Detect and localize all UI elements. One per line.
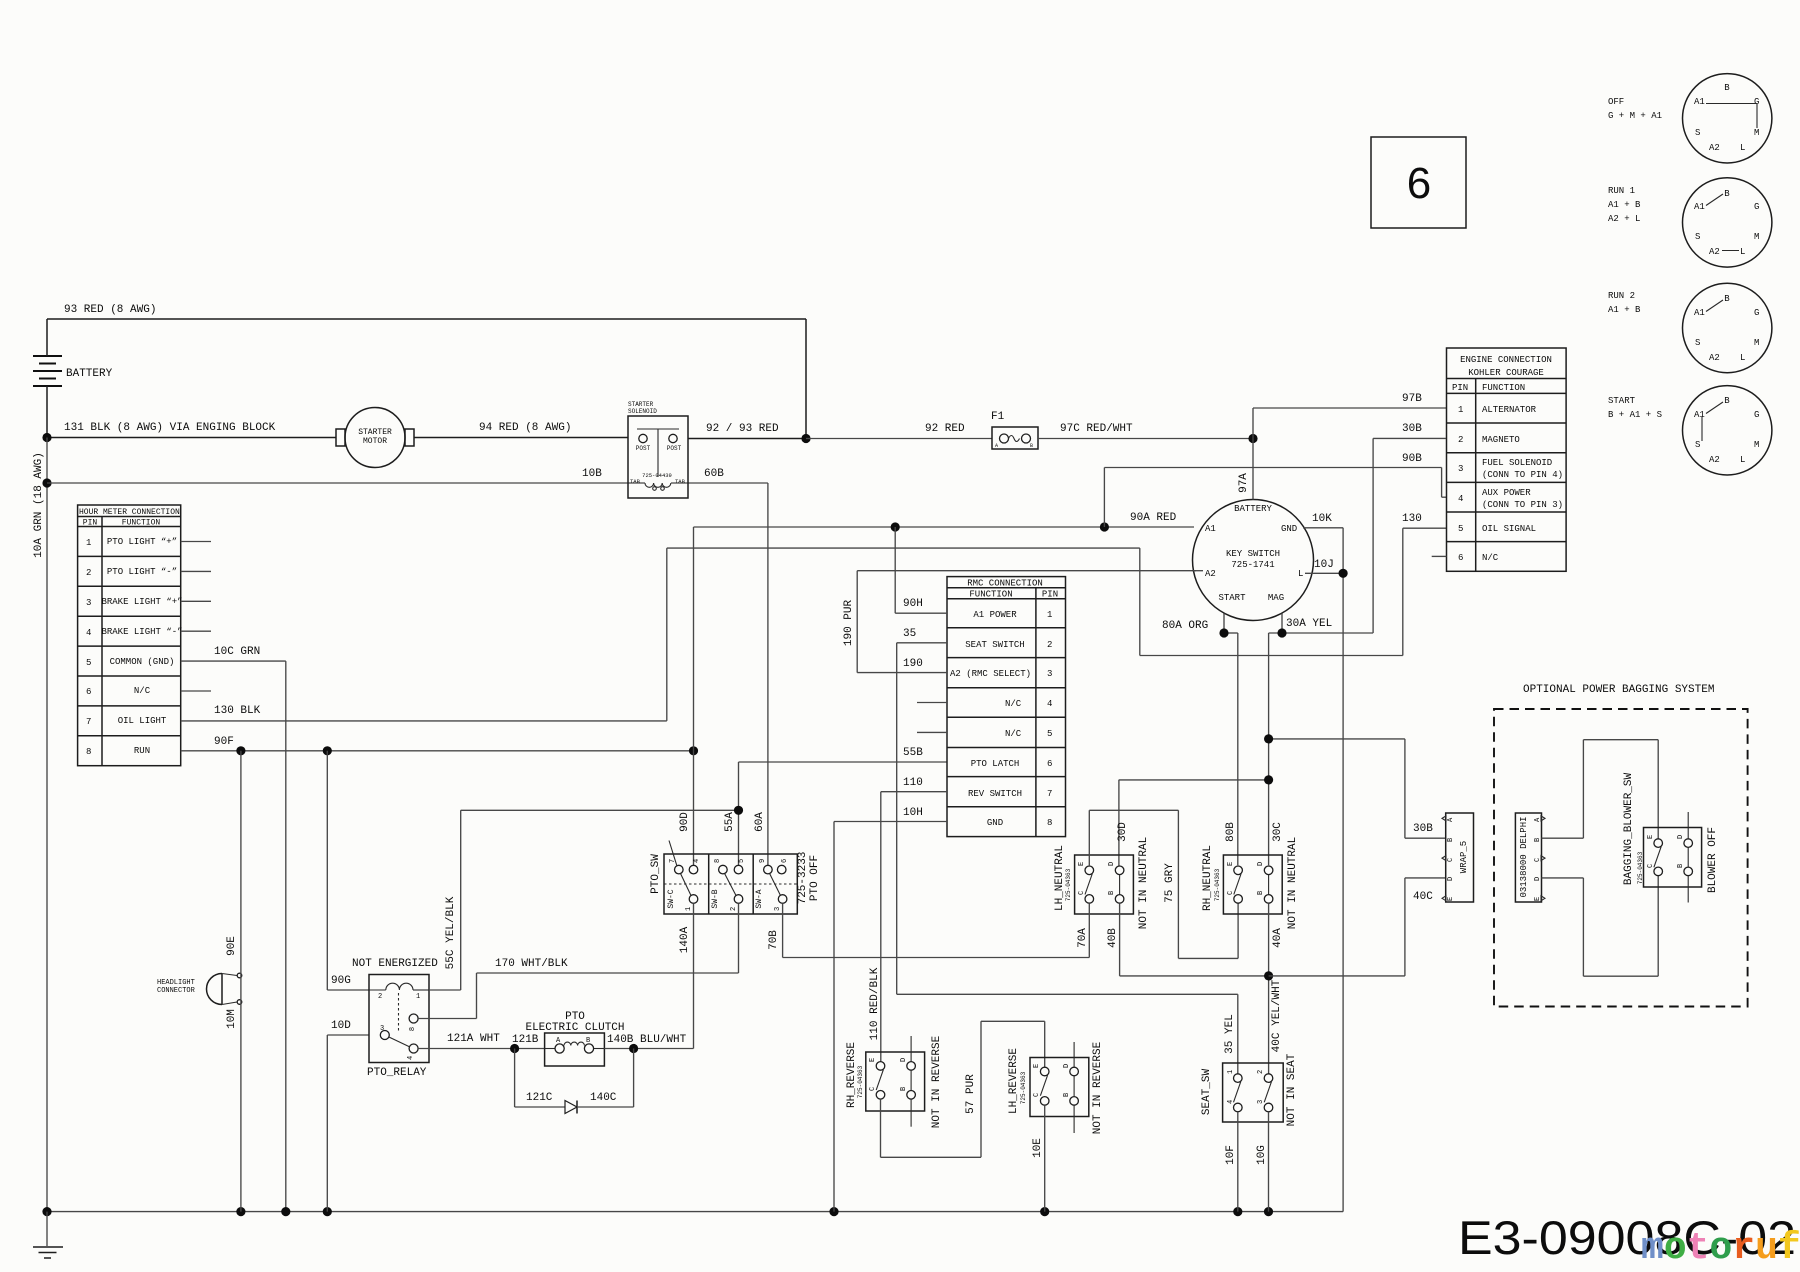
svg-text:30D: 30D: [1117, 822, 1129, 842]
svg-text:PTO OFF: PTO OFF: [809, 855, 821, 901]
box sheet number 6: [1371, 137, 1466, 228]
svg-text:40C: 40C: [1413, 891, 1433, 903]
svg-text:motoruf.de: motoruf.de: [1641, 1227, 1800, 1270]
node rail-10E: [1040, 1207, 1049, 1216]
svg-text:3: 3: [1458, 464, 1463, 474]
wire 10A GRN (18 AWG) left vertical: [33, 438, 47, 1212]
hour meter pin 2 stub: [181, 570, 211, 572]
svg-text:WRAP_5: WRAP_5: [1459, 841, 1469, 873]
svg-text:S: S: [1695, 232, 1700, 242]
svg-text:B + A1 + S: B + A1 + S: [1608, 410, 1662, 420]
wire 90G: [327, 751, 369, 990]
svg-text:BLOWER OFF: BLOWER OFF: [1707, 827, 1719, 893]
wire 97B: [1253, 393, 1446, 439]
svg-text:725-04363: 725-04363: [1065, 868, 1072, 901]
svg-text:57 PUR: 57 PUR: [965, 1074, 977, 1114]
svg-text:10J: 10J: [1314, 559, 1334, 571]
svg-text:70B: 70B: [768, 930, 780, 950]
hour meter pin 4 stub: [181, 630, 211, 632]
wire 10J: [1305, 559, 1343, 573]
node 30D junction: [1264, 775, 1273, 784]
svg-text:A1 + B: A1 + B: [1608, 305, 1641, 315]
svg-text:OPTIONAL POWER BAGGING SYSTEM: OPTIONAL POWER BAGGING SYSTEM: [1523, 684, 1714, 696]
svg-text:RUN 1: RUN 1: [1608, 186, 1635, 196]
svg-text:90F: 90F: [214, 736, 234, 748]
switch RH_REVERSE 725-04363: [846, 967, 943, 1128]
svg-text:6: 6: [781, 859, 789, 863]
wire 130: [1402, 513, 1446, 528]
svg-text:B: B: [1108, 891, 1116, 895]
svg-text:D: D: [1447, 877, 1455, 881]
svg-text:L: L: [1298, 569, 1303, 579]
svg-text:170 WHT/BLK: 170 WHT/BLK: [495, 958, 568, 970]
svg-text:B: B: [1534, 838, 1542, 842]
ground: [33, 1212, 63, 1258]
svg-text:HOUR METER CONNECTION: HOUR METER CONNECTION: [79, 508, 180, 517]
svg-text:10M: 10M: [226, 1009, 238, 1029]
svg-text:PIN: PIN: [1452, 383, 1468, 393]
hour meter pin 3 stub: [181, 600, 211, 602]
wire 35 YEL: [897, 994, 1238, 1074]
svg-text:10G: 10G: [1256, 1145, 1268, 1165]
svg-text:SOLENOID: SOLENOID: [628, 408, 657, 415]
switch LH_REVERSE 725-04363: [1008, 1041, 1104, 1134]
svg-text:90B: 90B: [1402, 453, 1422, 465]
svg-text:SEAT_SW: SEAT_SW: [1201, 1069, 1213, 1116]
svg-text:75 GRY: 75 GRY: [1164, 863, 1176, 903]
wire 70B: [768, 903, 1089, 957]
wire 55C YEL/BLK: [429, 810, 461, 990]
battery BT1: [33, 356, 113, 386]
svg-text:725-04363: 725-04363: [857, 1065, 864, 1098]
wire 75 GRY: [1089, 810, 1238, 958]
wire 140A: [679, 903, 694, 1048]
svg-text:OIL SIGNAL: OIL SIGNAL: [1482, 524, 1536, 534]
node 90-90H junction: [891, 522, 900, 531]
wire 94 RED (8 AWG): [414, 422, 628, 438]
node rail-10F: [1233, 1207, 1242, 1216]
svg-text:PTO LIGHT “+”: PTO LIGHT “+”: [107, 537, 177, 547]
starter solenoid: [628, 401, 688, 498]
svg-text:90G: 90G: [331, 975, 351, 987]
svg-text:B: B: [586, 1037, 590, 1045]
node 40 junction: [1264, 971, 1273, 980]
RMC pin 5 stub: [917, 731, 947, 733]
svg-text:2: 2: [1257, 1070, 1265, 1074]
wire 10K: [1303, 513, 1343, 1212]
svg-text:N/C: N/C: [1482, 553, 1499, 563]
table ENGINE CONNECTION KOHLER COURAGE: [1447, 348, 1567, 571]
diode D1 loop 121C/140C: [515, 1049, 634, 1114]
svg-text:35: 35: [903, 628, 916, 640]
svg-text:PIN: PIN: [83, 519, 98, 528]
svg-text:121A WHT: 121A WHT: [447, 1033, 500, 1045]
svg-text:E: E: [1078, 862, 1086, 866]
svg-text:A2: A2: [1709, 455, 1720, 465]
wire 80A ORG: [1162, 614, 1238, 866]
svg-text:C: C: [869, 1087, 877, 1091]
svg-text:RUN: RUN: [134, 746, 150, 756]
svg-text:NOT IN REVERSE: NOT IN REVERSE: [931, 1035, 943, 1128]
key position START: [1608, 386, 1772, 475]
svg-text:E: E: [869, 1058, 877, 1062]
svg-text:94 RED (8 AWG): 94 RED (8 AWG): [479, 422, 571, 434]
svg-text:NOT IN REVERSE: NOT IN REVERSE: [1092, 1041, 1104, 1134]
svg-text:725-3233: 725-3233: [797, 852, 809, 905]
wire 30B to engine magneto: [1373, 423, 1446, 633]
svg-text:A1: A1: [1694, 202, 1705, 212]
svg-text:NOT ENERGIZED: NOT ENERGIZED: [352, 958, 438, 970]
wire 10E: [1032, 1105, 1045, 1211]
svg-text:80B: 80B: [1225, 822, 1237, 842]
wire ground rail: [47, 1211, 1343, 1213]
svg-text:190: 190: [903, 658, 923, 670]
svg-text:10A GRN (18 AWG): 10A GRN (18 AWG): [33, 452, 45, 558]
svg-text:4: 4: [1047, 699, 1052, 709]
svg-text:70A: 70A: [1077, 928, 1089, 948]
svg-text:E: E: [1227, 862, 1235, 866]
svg-text:SW-A: SW-A: [755, 889, 764, 908]
svg-text:6: 6: [86, 687, 91, 697]
clutch PTO ELECTRIC CLUTCH: [512, 1011, 625, 1066]
svg-text:RUN 2: RUN 2: [1608, 291, 1635, 301]
wire 10C GRN: [181, 646, 286, 1212]
node rail-10H: [829, 1207, 838, 1216]
key position RUN 2: [1608, 283, 1772, 372]
wire 57 PUR: [881, 1021, 1045, 1157]
node 80A junction: [1219, 628, 1228, 637]
wire DELPHI B to blower E: [1542, 740, 1659, 839]
wire 190: [843, 571, 1196, 673]
node 10J junction: [1339, 569, 1348, 578]
svg-text:C: C: [1078, 891, 1086, 895]
svg-text:1: 1: [1227, 1070, 1235, 1074]
svg-text:1: 1: [685, 907, 693, 911]
svg-text:10D: 10D: [331, 1020, 351, 1032]
svg-text:FUNCTION: FUNCTION: [1482, 383, 1525, 393]
svg-text:30A YEL: 30A YEL: [1286, 618, 1332, 630]
svg-text:ALTERNATOR: ALTERNATOR: [1482, 405, 1537, 415]
svg-text:1: 1: [416, 993, 420, 1001]
node 30B branch junction: [1264, 734, 1273, 743]
svg-text:PTO_SW: PTO_SW: [650, 854, 662, 894]
svg-text:NOT IN NEUTRAL: NOT IN NEUTRAL: [1138, 837, 1150, 929]
node battery negative junction: [42, 433, 51, 442]
node 90F-90G junction: [323, 746, 332, 755]
svg-text:OIL LIGHT: OIL LIGHT: [118, 716, 167, 726]
wire 10F: [1225, 1112, 1238, 1212]
svg-text:A2: A2: [1709, 247, 1720, 257]
svg-text:140A: 140A: [679, 926, 691, 953]
svg-text:A: A: [995, 443, 998, 449]
svg-text:30B: 30B: [1402, 423, 1422, 435]
svg-text:ELECTRIC CLUTCH: ELECTRIC CLUTCH: [525, 1022, 624, 1034]
wire 55B: [739, 747, 948, 810]
wire 10B: [47, 468, 768, 483]
svg-text:PTO LIGHT “-”: PTO LIGHT “-”: [107, 567, 177, 577]
svg-text:M: M: [1754, 128, 1759, 138]
svg-text:SW-C: SW-C: [667, 889, 676, 908]
svg-text:(CONN TO PIN 4): (CONN TO PIN 4): [1482, 470, 1563, 480]
svg-text:MOTOR: MOTOR: [363, 437, 387, 446]
svg-text:A2 (RMC SELECT): A2 (RMC SELECT): [950, 669, 1031, 679]
wire 40B: [1107, 903, 1269, 976]
wire 10G: [1256, 1112, 1269, 1212]
node rail-10C: [281, 1207, 290, 1216]
svg-text:HEADLIGHT: HEADLIGHT: [157, 979, 195, 987]
svg-text:B: B: [1724, 189, 1730, 199]
wire 90B: [1104, 453, 1446, 527]
svg-text:M: M: [1754, 232, 1759, 242]
wire 93 RED (8 AWG) top: [47, 304, 806, 439]
wire 97A: [1238, 439, 1253, 500]
node 90F-90E junction: [236, 746, 245, 755]
wire 70A: [1077, 903, 1089, 957]
svg-text:725-04363: 725-04363: [1637, 851, 1644, 884]
RMC pin 4 stub: [917, 702, 947, 704]
svg-text:90H: 90H: [903, 598, 923, 610]
svg-text:REV SWITCH: REV SWITCH: [968, 789, 1022, 799]
svg-text:PIN: PIN: [1042, 590, 1058, 600]
svg-text:8: 8: [409, 1027, 417, 1031]
svg-text:GND: GND: [987, 818, 1003, 828]
wire 131 BLK (8 AWG) via engine block: [47, 386, 336, 438]
svg-text:ENGINE CONNECTION: ENGINE CONNECTION: [1460, 355, 1552, 365]
svg-text:N/C: N/C: [134, 686, 151, 696]
svg-text:725-04363: 725-04363: [1214, 868, 1221, 901]
svg-text:80A ORG: 80A ORG: [1162, 620, 1208, 632]
svg-text:START: START: [1608, 396, 1636, 406]
svg-text:POST: POST: [667, 445, 682, 452]
svg-text:5: 5: [86, 658, 91, 668]
svg-text:B: B: [1063, 1093, 1071, 1097]
svg-text:7: 7: [1047, 789, 1052, 799]
svg-text:TAB: TAB: [630, 478, 641, 485]
switch SEAT_SW: [1201, 1053, 1298, 1126]
svg-text:A1: A1: [1694, 308, 1705, 318]
wire 30A YEL: [1269, 614, 1374, 866]
svg-text:97B: 97B: [1402, 393, 1422, 405]
svg-text:BRAKE LIGHT “+”: BRAKE LIGHT “+”: [101, 597, 182, 607]
svg-text:FUNCTION: FUNCTION: [969, 590, 1012, 600]
svg-text:N/C: N/C: [1005, 699, 1022, 709]
svg-text:S: S: [1695, 440, 1700, 450]
svg-text:55C YEL/BLK: 55C YEL/BLK: [445, 896, 457, 969]
wire 97C RED/WHT: [1038, 423, 1253, 439]
fuse F1: [991, 411, 1038, 449]
svg-text:NOT IN SEAT: NOT IN SEAT: [1286, 1053, 1298, 1126]
svg-text:10C GRN: 10C GRN: [214, 646, 260, 658]
key switch 725-1741: [1193, 500, 1314, 621]
svg-text:A2: A2: [1709, 353, 1720, 363]
switch RH_NEUTRAL 725-04363: [1202, 822, 1299, 948]
svg-text:(CONN TO PIN 3): (CONN TO PIN 3): [1482, 500, 1563, 510]
svg-text:TAB: TAB: [675, 478, 686, 485]
node 97A junction: [1248, 434, 1257, 443]
connector WRAP_5: [1442, 813, 1474, 902]
svg-text:4: 4: [407, 1056, 415, 1060]
svg-text:2: 2: [1047, 640, 1052, 650]
svg-text:S: S: [1695, 128, 1700, 138]
svg-text:BATTERY: BATTERY: [66, 368, 113, 380]
svg-text:110 RED/BLK: 110 RED/BLK: [869, 967, 881, 1040]
svg-text:C: C: [1033, 1093, 1041, 1097]
svg-text:90A RED: 90A RED: [1130, 512, 1177, 524]
svg-text:35 YEL: 35 YEL: [1224, 1014, 1236, 1054]
svg-text:B: B: [1724, 294, 1730, 304]
node rail-10M: [236, 1207, 245, 1216]
svg-text:C: C: [1447, 858, 1455, 862]
svg-text:BATTERY: BATTERY: [1234, 504, 1272, 514]
svg-text:BRAKE LIGHT “-”: BRAKE LIGHT “-”: [101, 627, 182, 637]
svg-text:GND: GND: [1281, 524, 1297, 534]
svg-text:10K: 10K: [1312, 513, 1332, 525]
switch PTO_SW 725-3233: [650, 841, 821, 915]
svg-text:A1 + B: A1 + B: [1608, 200, 1641, 210]
svg-text:G: G: [1754, 308, 1759, 318]
svg-text:C: C: [1227, 891, 1235, 895]
svg-text:B: B: [1447, 838, 1455, 842]
node 92/93 junction: [801, 434, 810, 443]
svg-text:C: C: [1647, 864, 1655, 868]
svg-text:8: 8: [1047, 818, 1052, 828]
svg-text:4: 4: [1227, 1100, 1235, 1104]
svg-text:D: D: [900, 1058, 908, 1062]
svg-text:8: 8: [86, 747, 91, 757]
svg-text:A1: A1: [1205, 524, 1216, 534]
hour meter connection table: [78, 505, 183, 766]
svg-text:S: S: [1695, 338, 1700, 348]
svg-text:COMMON (GND): COMMON (GND): [110, 657, 175, 667]
svg-text:5: 5: [1047, 729, 1052, 739]
relay PTO_RELAY: [352, 958, 438, 1079]
wire 130 BLK: [181, 705, 667, 721]
svg-text:97C RED/WHT: 97C RED/WHT: [1060, 423, 1133, 435]
wire 121A WHT: [418, 1033, 544, 1049]
svg-text:40C YEL/WHT: 40C YEL/WHT: [1271, 979, 1283, 1052]
optional power bagging system dashed box: [1494, 684, 1748, 1007]
svg-text:7: 7: [86, 717, 91, 727]
wire 30B branch to WRAP_5: [1269, 739, 1446, 838]
svg-text:131 BLK (8 AWG) VIA ENGING BLO: 131 BLK (8 AWG) VIA ENGING BLOCK: [64, 422, 276, 434]
wire 140B BLU/WHT: [604, 1034, 693, 1049]
svg-text:110: 110: [903, 777, 923, 789]
svg-text:A1: A1: [1694, 410, 1705, 420]
svg-text:KOHLER COURAGE: KOHLER COURAGE: [1468, 368, 1544, 378]
svg-text:121B: 121B: [512, 1034, 539, 1046]
svg-text:A2: A2: [1709, 143, 1720, 153]
svg-text:E: E: [1447, 897, 1455, 901]
svg-text:AUX POWER: AUX POWER: [1482, 488, 1531, 498]
svg-text:7: 7: [669, 859, 677, 863]
svg-text:60B: 60B: [704, 468, 724, 480]
svg-text:2: 2: [86, 568, 91, 578]
node rail-10D: [323, 1207, 332, 1216]
svg-text:1: 1: [1458, 405, 1463, 415]
svg-text:PTO_RELAY: PTO_RELAY: [367, 1067, 427, 1079]
svg-text:10B: 10B: [582, 468, 602, 480]
svg-text:4: 4: [86, 628, 91, 638]
svg-text:5: 5: [738, 859, 746, 863]
svg-text:MAG: MAG: [1268, 593, 1284, 603]
svg-text:L: L: [1740, 143, 1745, 153]
svg-text:40B: 40B: [1107, 928, 1119, 948]
svg-text:6: 6: [1458, 553, 1463, 563]
svg-text:92 / 93 RED: 92 / 93 RED: [706, 423, 779, 435]
svg-text:B: B: [1724, 396, 1730, 406]
starter motor M1: [336, 408, 414, 468]
svg-text:93 RED (8 AWG): 93 RED (8 AWG): [64, 304, 156, 316]
svg-text:PTO LATCH: PTO LATCH: [971, 759, 1020, 769]
svg-text:A1 POWER: A1 POWER: [973, 610, 1017, 620]
svg-text:2: 2: [730, 907, 738, 911]
svg-text:130 BLK: 130 BLK: [214, 705, 261, 717]
svg-text:M: M: [1754, 440, 1759, 450]
wire 40A seat link: [1268, 903, 1270, 1074]
svg-text:A1: A1: [1694, 97, 1705, 107]
svg-text:FUNCTION: FUNCTION: [122, 519, 161, 528]
svg-text:140C: 140C: [590, 1092, 617, 1104]
svg-text:B: B: [1724, 83, 1730, 93]
engine pin 6 stub: [1432, 555, 1447, 557]
svg-text:STARTER: STARTER: [358, 428, 392, 437]
svg-text:2: 2: [1458, 435, 1463, 445]
svg-text:90D: 90D: [679, 812, 691, 832]
switch BAGGING_BLOWER_SW 725-04363: [1623, 772, 1719, 902]
svg-text:4: 4: [1458, 494, 1463, 504]
svg-text:START: START: [1218, 593, 1246, 603]
node rail-10G: [1264, 1207, 1273, 1216]
svg-text:A2 + L: A2 + L: [1608, 214, 1640, 224]
node 140B junction: [629, 1044, 638, 1053]
wire pin2 to 170 net: [738, 903, 740, 973]
node rail-battery: [42, 1207, 51, 1216]
svg-text:L: L: [1740, 353, 1745, 363]
wire 55A: [461, 810, 739, 865]
svg-text:97A: 97A: [1238, 473, 1250, 493]
svg-text:1: 1: [86, 538, 91, 548]
wire 35: [897, 628, 947, 994]
svg-text:92 RED: 92 RED: [925, 423, 965, 435]
svg-text:D: D: [1108, 862, 1116, 866]
svg-text:140B BLU/WHT: 140B BLU/WHT: [607, 1034, 687, 1046]
key position OFF: [1608, 74, 1772, 163]
svg-text:SW-B: SW-B: [711, 889, 720, 908]
svg-text:1: 1: [1047, 610, 1052, 620]
svg-text:G + M + A1: G + M + A1: [1608, 111, 1662, 121]
svg-text:B: B: [900, 1087, 908, 1091]
switch LH_NEUTRAL 725-04363: [1054, 837, 1150, 929]
wire 130 net link: [667, 528, 1403, 721]
svg-text:L: L: [1740, 455, 1745, 465]
svg-text:725-04363: 725-04363: [1020, 1071, 1027, 1104]
svg-text:10F: 10F: [1225, 1145, 1237, 1165]
wire 90 net horizontal to key A1: [694, 526, 1195, 528]
connector 03138000 DELPHI: [1515, 813, 1545, 902]
svg-text:3: 3: [380, 1025, 384, 1033]
svg-text:A2: A2: [1205, 569, 1216, 579]
svg-text:6: 6: [1047, 759, 1052, 769]
svg-text:NOT IN NEUTRAL: NOT IN NEUTRAL: [1287, 837, 1299, 929]
svg-text:9: 9: [759, 859, 767, 863]
svg-text:3: 3: [1257, 1100, 1265, 1104]
wire 92 RED: [806, 423, 992, 439]
headlight connector: [157, 973, 242, 1004]
svg-text:121C: 121C: [526, 1092, 553, 1104]
hour meter pin 6 stub: [181, 690, 211, 692]
svg-text:KEY SWITCH: KEY SWITCH: [1226, 549, 1280, 559]
wire 90D (90 net riser): [679, 527, 694, 865]
